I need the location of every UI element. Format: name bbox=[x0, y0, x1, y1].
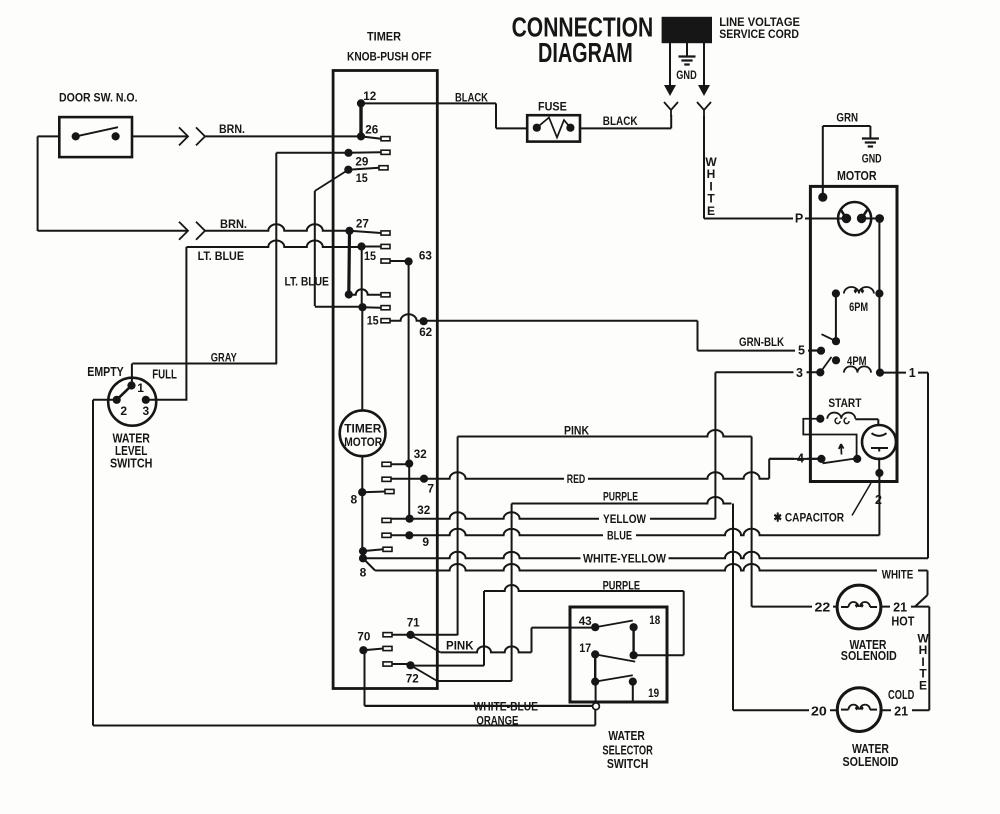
svg-text:RED: RED bbox=[567, 472, 586, 486]
svg-text:WHITE-YELLOW: WHITE-YELLOW bbox=[583, 551, 667, 565]
svg-text:15: 15 bbox=[356, 171, 368, 185]
svg-text:KNOB-PUSH OFF: KNOB-PUSH OFF bbox=[347, 50, 432, 64]
svg-text:START: START bbox=[828, 396, 862, 410]
svg-text:WATER: WATER bbox=[852, 742, 889, 756]
svg-text:GND: GND bbox=[862, 152, 882, 166]
svg-text:✱ CAPACITOR: ✱ CAPACITOR bbox=[774, 511, 845, 525]
svg-text:E: E bbox=[707, 204, 715, 218]
svg-text:ORANGE: ORANGE bbox=[476, 714, 518, 728]
svg-text:3: 3 bbox=[796, 366, 803, 380]
svg-text:27: 27 bbox=[356, 216, 369, 230]
svg-text:63: 63 bbox=[419, 248, 432, 262]
svg-text:1: 1 bbox=[909, 366, 916, 380]
svg-text:BLACK: BLACK bbox=[603, 114, 638, 128]
svg-text:P: P bbox=[795, 212, 803, 226]
svg-text:PINK: PINK bbox=[564, 423, 589, 437]
svg-text:5: 5 bbox=[798, 343, 805, 357]
svg-text:SOLENOID: SOLENOID bbox=[843, 755, 899, 769]
svg-text:29: 29 bbox=[355, 155, 368, 169]
svg-text:GRN-BLK: GRN-BLK bbox=[739, 335, 784, 349]
svg-text:8: 8 bbox=[350, 493, 357, 507]
svg-text:PINK: PINK bbox=[446, 638, 474, 652]
svg-text:32: 32 bbox=[414, 447, 427, 461]
svg-text:FUSE: FUSE bbox=[538, 99, 567, 113]
svg-text:GND: GND bbox=[676, 68, 697, 82]
svg-text:6PM: 6PM bbox=[849, 300, 868, 314]
svg-text:26: 26 bbox=[365, 122, 378, 136]
svg-text:E: E bbox=[919, 678, 927, 692]
svg-text:62: 62 bbox=[419, 325, 432, 339]
svg-text:8: 8 bbox=[360, 565, 367, 579]
svg-text:HOT: HOT bbox=[891, 615, 914, 629]
svg-text:BLUE: BLUE bbox=[607, 528, 632, 542]
svg-text:TIMER: TIMER bbox=[367, 29, 401, 43]
svg-text:19: 19 bbox=[648, 686, 659, 700]
svg-text:DIAGRAM: DIAGRAM bbox=[538, 37, 633, 68]
svg-text:71: 71 bbox=[407, 615, 420, 629]
svg-text:LT. BLUE: LT. BLUE bbox=[198, 249, 244, 263]
svg-text:PURPLE: PURPLE bbox=[603, 578, 640, 592]
svg-text:3: 3 bbox=[142, 404, 149, 418]
svg-text:SWITCH: SWITCH bbox=[607, 757, 648, 771]
svg-text:FULL: FULL bbox=[152, 368, 177, 382]
svg-text:BRN.: BRN. bbox=[220, 217, 247, 231]
svg-text:17: 17 bbox=[579, 641, 591, 655]
svg-text:9: 9 bbox=[422, 535, 429, 549]
svg-text:7: 7 bbox=[427, 481, 434, 495]
svg-text:GRN: GRN bbox=[836, 111, 858, 125]
svg-text:SERVICE CORD: SERVICE CORD bbox=[719, 27, 799, 41]
svg-text:SELECTOR: SELECTOR bbox=[602, 744, 652, 758]
svg-text:MOTOR: MOTOR bbox=[837, 169, 877, 183]
svg-text:72: 72 bbox=[406, 671, 419, 685]
svg-text:32: 32 bbox=[417, 503, 430, 517]
svg-text:18: 18 bbox=[649, 613, 660, 627]
svg-text:BRN.: BRN. bbox=[219, 122, 245, 136]
svg-text:43: 43 bbox=[579, 614, 592, 628]
svg-text:GRAY: GRAY bbox=[211, 351, 237, 365]
svg-text:EMPTY: EMPTY bbox=[87, 365, 124, 379]
svg-text:1: 1 bbox=[137, 381, 144, 395]
svg-text:15: 15 bbox=[367, 314, 379, 328]
svg-text:21: 21 bbox=[893, 601, 907, 615]
svg-text:COLD: COLD bbox=[888, 688, 914, 702]
svg-text:15: 15 bbox=[364, 249, 376, 263]
svg-text:LT. BLUE: LT. BLUE bbox=[284, 274, 329, 288]
svg-text:WHITE: WHITE bbox=[882, 567, 914, 581]
svg-text:WATER: WATER bbox=[608, 729, 644, 743]
svg-text:21: 21 bbox=[894, 704, 908, 718]
svg-text:PURPLE: PURPLE bbox=[603, 490, 638, 504]
svg-text:SOLENOID: SOLENOID bbox=[841, 649, 897, 663]
svg-text:12: 12 bbox=[363, 89, 376, 103]
svg-text:2: 2 bbox=[120, 404, 127, 418]
svg-text:20: 20 bbox=[811, 704, 827, 718]
svg-text:70: 70 bbox=[357, 630, 370, 644]
svg-text:DOOR SW. N.O.: DOOR SW. N.O. bbox=[59, 90, 138, 104]
svg-text:22: 22 bbox=[815, 601, 831, 615]
svg-text:MOTOR: MOTOR bbox=[344, 437, 382, 449]
svg-text:YELLOW: YELLOW bbox=[603, 512, 647, 526]
svg-text:BLACK: BLACK bbox=[455, 91, 488, 105]
svg-text:SWITCH: SWITCH bbox=[110, 456, 153, 470]
svg-text:TIMER: TIMER bbox=[344, 424, 382, 436]
